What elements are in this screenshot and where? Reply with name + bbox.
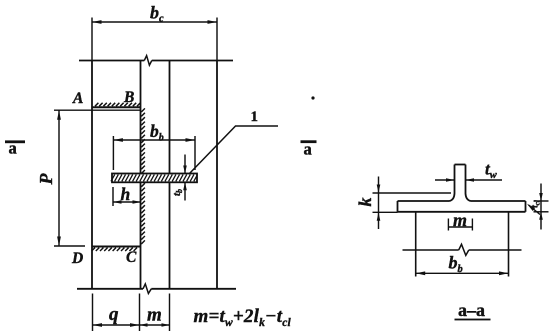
- label k (rotated): [355, 198, 375, 207]
- label B: [123, 89, 134, 106]
- section mark a (left): [5, 139, 25, 158]
- svg-text:m=tw+2lk−tcl: m=tw+2lk−tcl: [194, 306, 292, 329]
- plate edge A-B with weld hatch: [93, 103, 142, 108]
- beam flange plate 1 (hatched section): [111, 174, 198, 183]
- label b_c: [150, 2, 164, 24]
- dimension b_c top: [92, 18, 217, 61]
- wire top beam flange line with break: [79, 56, 233, 66]
- svg-text:h: h: [121, 184, 131, 204]
- leader line to item 1: [189, 126, 278, 174]
- label t_cl (rotated): [530, 200, 542, 208]
- wire column web line BC x=140.5: [140, 61, 142, 289]
- label q: [109, 304, 119, 325]
- svg-text:a: a: [304, 140, 312, 159]
- svg-text:P: P: [36, 173, 56, 186]
- label t_w: [485, 160, 498, 181]
- svg-text:D: D: [71, 250, 83, 267]
- label P (rotated): [36, 173, 56, 186]
- label D: [71, 250, 83, 267]
- svg-text:A: A: [72, 90, 83, 107]
- dimension t_b (plate thickness): [183, 155, 187, 201]
- dimension k: [373, 177, 452, 230]
- label m (section): [453, 210, 467, 230]
- wire column flange right (vertical line x=217): [216, 61, 218, 289]
- label t_b (rotated): [171, 189, 184, 196]
- label 1: [251, 109, 259, 125]
- section flange outline: [398, 201, 526, 212]
- beam flange edges below section: [416, 212, 509, 277]
- title a-a: [455, 300, 491, 320]
- dimension t_w: [435, 178, 502, 182]
- section mark a (right): [301, 140, 317, 159]
- break line of beam flange: [403, 244, 522, 255]
- svg-text:k: k: [355, 198, 375, 207]
- label m: [147, 304, 162, 325]
- label C: [126, 249, 137, 266]
- weld hatch along B-C web line: [141, 108, 145, 244]
- svg-text:B: B: [123, 89, 134, 106]
- dimension h: [113, 187, 141, 206]
- label b_b: [150, 121, 164, 143]
- svg-text:1: 1: [251, 109, 259, 125]
- dimension P left: [54, 110, 141, 246]
- dimension m (section): [448, 219, 472, 231]
- label b_b (section): [449, 253, 463, 275]
- svg-text:m: m: [147, 304, 162, 325]
- svg-text:C: C: [126, 249, 137, 266]
- svg-text:a–a: a–a: [458, 300, 485, 320]
- dimension b_b (plan): [113, 136, 195, 170]
- label h: [121, 184, 131, 204]
- wire column flange left (vertical line x=92): [91, 61, 93, 289]
- svg-text:m: m: [453, 210, 467, 230]
- svg-text:q: q: [109, 304, 119, 325]
- speck: [311, 96, 314, 99]
- label A: [72, 90, 83, 107]
- dimension b_b (section): [416, 271, 509, 275]
- wire inner vertical line x=169.5: [169, 61, 171, 289]
- formula m = t_w + 2 l_k - t_cl: [194, 306, 292, 329]
- wire bottom beam flange line with break: [77, 284, 236, 294]
- plate edge D-C with weld hatch: [92, 247, 141, 252]
- svg-text:a: a: [9, 139, 17, 158]
- dimensions q and m bottom: [93, 294, 170, 332]
- dimension t_cl (flange thickness): [527, 184, 549, 230]
- section web (stem) outline: [450, 165, 471, 202]
